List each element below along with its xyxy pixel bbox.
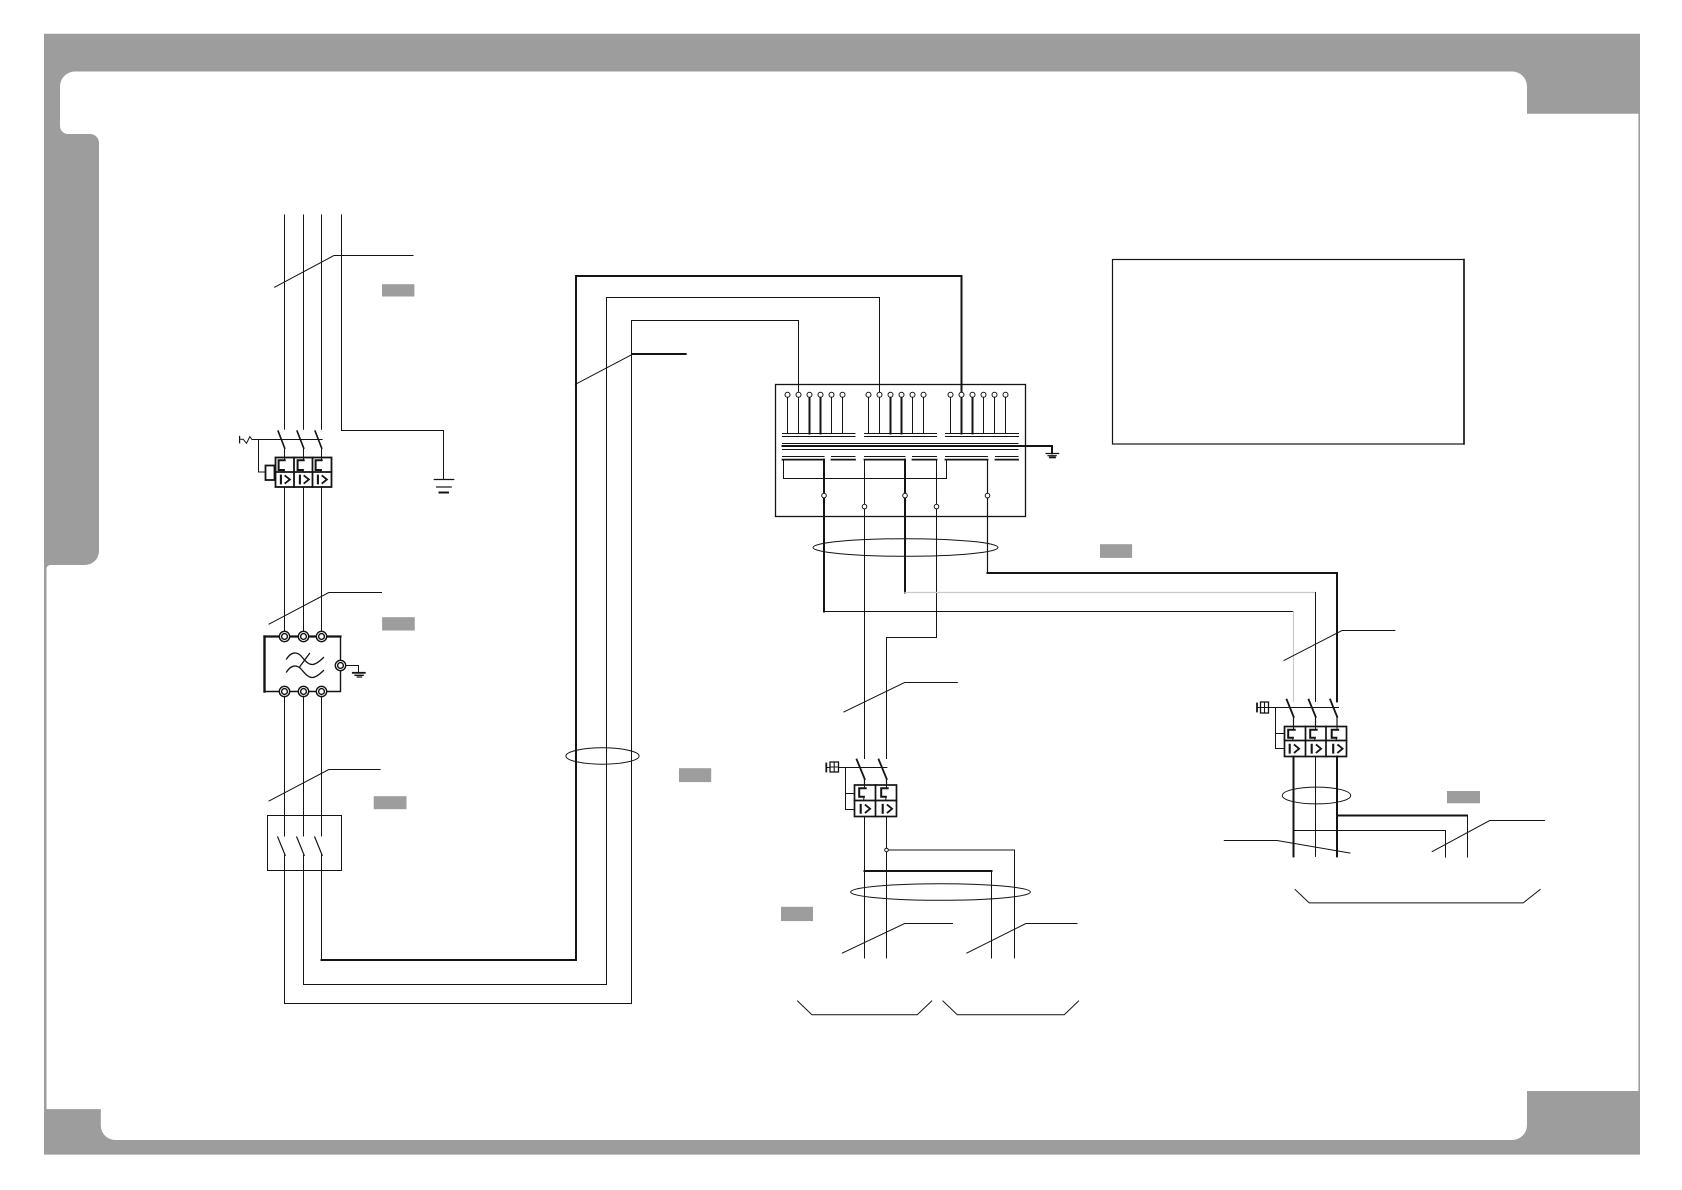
label placeholder Q2 [781,907,813,921]
brace Q2 left [798,1001,932,1015]
wire Q3 pole3 down [1336,757,1338,857]
wire X1 to Q3 pole2 [904,460,906,593]
pins group3 [948,392,1008,433]
wire mains PE [342,215,444,479]
lower contact segments [783,456,1019,458]
pins group2 [866,392,926,433]
wire Q3 branch right upper [1337,815,1467,817]
label placeholder X1 cable [1100,544,1132,558]
terminal block X1 [776,385,1059,517]
leader line Q2 right [967,924,1077,954]
label placeholder mains [382,284,414,296]
wire Z1 to K1 [285,696,322,815]
wire X1 to Q3 pole1 [823,460,825,612]
wire X1 to Q2 pole2 [887,460,937,759]
wire Q3 pole2 down [1315,757,1317,857]
wire Q2 pole1 down [864,817,866,959]
wire K1 to X1 group2 [304,298,880,985]
wire Q3 branch right lower [1294,831,1446,858]
motor protection breaker Q3 [1257,700,1347,757]
ground bus [1046,454,1059,456]
wire Q2 branch lower [865,870,992,872]
wire mains phase L2 [303,215,305,429]
leader line mains [275,256,413,288]
sub box [784,460,947,479]
cable bundle marker supply [566,748,639,764]
leader line bundle [575,354,633,384]
connector node circles [822,493,990,509]
contact strips [783,434,1019,437]
label placeholder bundle [679,768,711,782]
leader line Q3 motor [1224,841,1350,854]
wire K1 to X1 group3 [321,871,323,961]
ground PE1 [434,480,453,493]
label placeholder contactor [374,796,407,809]
wire mains phase L1 [284,215,286,429]
wire K1 to X1 group1 [285,321,799,1004]
brace Q2 right [943,1001,1079,1015]
leader line Q3 feed [1284,631,1395,661]
pins group1 [785,392,845,433]
label placeholder filter [382,617,415,630]
cable bundle marker X1 [813,539,998,557]
leader line filter [269,593,381,625]
contactor K1 [268,816,342,871]
cable bundle marker Q2 [851,884,1031,901]
wire Q2 pole2 down [886,817,888,959]
leader line contactor [269,770,380,801]
leader line Q2 left [842,924,952,954]
wire Q3 pole1 down [1293,757,1295,857]
circuit breaker Q1 [240,431,332,487]
motor protection breaker Q2 [826,760,896,817]
leader line Q2 feed [844,683,957,712]
label placeholder Q3 [1447,791,1480,803]
line filter Z1 [265,631,365,696]
wire X1 to Q3 pole3 [987,460,989,572]
legend box [1113,260,1465,445]
brace Q3 [1295,890,1540,903]
cable bundle marker Q3 [1282,787,1350,804]
wire mains phase L3 [321,215,323,429]
leader line Q3 branches [1432,821,1544,852]
wire Q1 to Z1 [285,487,322,632]
wire X1 to Q2 pole1 [864,460,866,759]
bus bar [783,444,1019,450]
wire Q2 branch upper [887,850,1015,958]
